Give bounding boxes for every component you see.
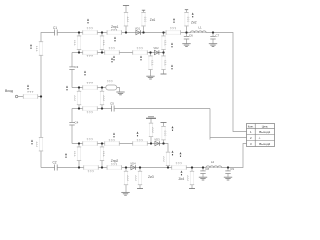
svg-text:C3: C3 xyxy=(75,65,79,69)
current arrow (Zи1) xyxy=(173,18,175,23)
svg-text:???: ??? xyxy=(144,16,148,22)
wire xyxy=(163,123,165,144)
junction xyxy=(101,51,103,53)
svg-text:Вход: Вход xyxy=(5,89,13,93)
wire C7 stem xyxy=(212,33,214,44)
resistor R28 (???) xyxy=(172,161,187,169)
current arrow (R23) xyxy=(172,126,174,131)
capacitor C6 xyxy=(184,36,189,39)
svg-text:???: ??? xyxy=(102,95,106,101)
current arrow (R1) xyxy=(30,44,32,49)
wire input branch xyxy=(18,96,41,98)
svg-text:???: ??? xyxy=(73,40,77,46)
svg-text:???: ??? xyxy=(87,26,94,30)
junction xyxy=(227,166,229,168)
svg-text:???: ??? xyxy=(126,175,130,181)
current arrow (R9) xyxy=(171,43,173,48)
ground (R13) xyxy=(146,76,154,79)
svg-text:???: ??? xyxy=(164,40,168,46)
svg-text:L1: L1 xyxy=(198,25,202,29)
capacitor C2 xyxy=(55,165,58,171)
current arrow (R12) xyxy=(140,56,142,61)
capacitor C5 xyxy=(112,106,115,112)
svg-text:C4: C4 xyxy=(75,120,79,124)
junction xyxy=(139,166,141,168)
svg-text:???: ??? xyxy=(27,90,34,94)
svg-text:???: ??? xyxy=(164,60,168,66)
inductor L3 (stadium) xyxy=(106,85,117,90)
svg-text:???: ??? xyxy=(102,40,106,46)
current arrow (Zи2) xyxy=(192,13,194,18)
wire xyxy=(163,33,165,53)
resistor Zпр1 (???) xyxy=(107,28,122,35)
wire xyxy=(71,109,73,144)
wire riser T1 xyxy=(125,6,127,33)
resistor R14 (???) xyxy=(161,56,167,69)
diode VD3 xyxy=(155,141,160,145)
svg-text:VD4: VD4 xyxy=(130,161,136,165)
wire C9 stem xyxy=(227,168,229,178)
svg-text:???: ??? xyxy=(102,151,106,157)
junction xyxy=(125,166,127,168)
terminal T7 xyxy=(189,188,195,190)
current arrow (R26) xyxy=(172,151,174,156)
junction xyxy=(162,51,164,53)
junction xyxy=(78,51,80,53)
wire xyxy=(101,33,103,53)
wire rail2 xyxy=(72,52,164,54)
junction xyxy=(162,142,164,144)
resistor R3 (???) xyxy=(23,90,38,99)
resistor R22 (???) xyxy=(149,123,155,136)
svg-text:???: ??? xyxy=(87,137,94,141)
wire C8 stem xyxy=(202,168,204,178)
capacitor C8 xyxy=(200,171,205,174)
svg-text:Цепь: Цепь xyxy=(262,125,269,129)
svg-text:???: ??? xyxy=(111,28,118,32)
resistor Zпр2 (???) xyxy=(107,163,122,170)
svg-text:???: ??? xyxy=(87,54,94,58)
current arrow (R24) xyxy=(65,153,67,158)
svg-text:???: ??? xyxy=(35,46,39,52)
resistor R13 (???) xyxy=(148,56,154,69)
svg-text:???: ??? xyxy=(137,139,144,143)
junction xyxy=(78,31,80,33)
current arrow (rail3) xyxy=(66,86,68,91)
svg-text:???: ??? xyxy=(107,79,113,83)
diode VD2 xyxy=(154,50,159,54)
resistor R6 (???) xyxy=(124,12,130,26)
resistor R1 (???) xyxy=(35,42,43,56)
capacitor C9 xyxy=(225,171,230,174)
ground (C8) xyxy=(199,177,207,180)
svg-text:L2: L2 xyxy=(211,160,215,164)
resistor R9 (???) xyxy=(161,36,167,50)
svg-text:???: ??? xyxy=(87,81,94,85)
wire xyxy=(139,168,141,189)
terminal T5 xyxy=(161,122,167,124)
resistor R25 (???) xyxy=(100,147,106,161)
current arrow (R4) xyxy=(87,19,89,24)
junction xyxy=(101,166,103,168)
junction xyxy=(150,142,152,144)
terminal T2 xyxy=(142,9,145,11)
resistor R15 (???) xyxy=(83,81,98,90)
current arrow (Zпр1) xyxy=(114,37,116,42)
terminal T6 xyxy=(137,188,143,190)
svg-text:???: ??? xyxy=(35,141,39,147)
svg-text:???: ??? xyxy=(186,175,190,181)
resistor R18 (???) xyxy=(83,106,98,114)
resistor R20 (???) xyxy=(105,139,120,146)
svg-text:???: ??? xyxy=(170,27,177,31)
resistor R11 (???) xyxy=(105,47,120,55)
svg-text:VD1: VD1 xyxy=(135,26,141,30)
svg-text:VD3: VD3 xyxy=(154,138,160,142)
resistor Zи4 (???) xyxy=(186,171,194,185)
diode VD1 xyxy=(136,30,141,34)
wire riser Zи2 xyxy=(186,10,188,33)
junction xyxy=(78,107,80,109)
junction xyxy=(101,31,103,33)
wire rail5 xyxy=(72,144,168,168)
svg-text:???: ??? xyxy=(88,169,95,173)
wire xyxy=(78,144,80,168)
svg-text:???: ??? xyxy=(137,47,144,51)
svg-text:C7: C7 xyxy=(216,33,220,37)
resistor R2 (???) xyxy=(35,137,43,151)
resistor R29 (???) xyxy=(124,171,130,185)
resistor Zи3 (???) xyxy=(134,171,142,185)
resistor R23 (???) xyxy=(161,126,167,140)
junction xyxy=(78,86,80,88)
terminal T3 xyxy=(185,9,188,11)
svg-text:???: ??? xyxy=(109,139,116,143)
svg-text:C2: C2 xyxy=(52,160,56,164)
wire xyxy=(101,88,103,109)
svg-text:C8: C8 xyxy=(205,167,209,171)
resistor Zи1 (???) xyxy=(141,12,147,26)
wire xyxy=(78,33,80,53)
ground (R29) xyxy=(121,192,129,195)
junction xyxy=(185,31,187,33)
wire xyxy=(163,53,165,74)
svg-text:C6: C6 xyxy=(189,33,193,37)
wire to connector pin2 xyxy=(210,109,247,140)
wire rail4 xyxy=(72,108,210,110)
wire xyxy=(71,53,73,88)
wire C6 stem xyxy=(186,33,188,44)
svg-text:Zи2: Zи2 xyxy=(191,21,197,25)
wire rail6 + connector pin3 feed xyxy=(41,144,247,168)
junction xyxy=(125,31,127,33)
wire xyxy=(150,118,152,143)
wire xyxy=(125,168,127,193)
resistor R19 (???) xyxy=(83,137,98,145)
junction xyxy=(212,31,214,33)
current arrow (R21) xyxy=(137,132,139,137)
current arrow (rail2) xyxy=(111,58,113,63)
svg-text:???: ??? xyxy=(162,156,166,162)
terminal T1 xyxy=(123,5,129,7)
resistor R5 (???) xyxy=(166,27,181,35)
wire xyxy=(78,88,80,109)
svg-text:Zи1: Zи1 xyxy=(150,18,156,22)
junction xyxy=(149,51,151,53)
svg-text:???: ??? xyxy=(151,127,155,133)
junction xyxy=(202,166,204,168)
ground (inverted) xyxy=(146,117,156,119)
junction xyxy=(142,31,144,33)
resistor R10 (???) xyxy=(83,50,98,58)
resistor R17 (???) xyxy=(100,91,106,105)
current arrow (R26b) xyxy=(180,152,182,157)
resistor R4 (???) xyxy=(83,26,98,34)
svg-text:Выход2: Выход2 xyxy=(259,142,270,146)
svg-text:???: ??? xyxy=(164,130,168,136)
svg-text:???: ??? xyxy=(73,151,77,157)
svg-text:???: ??? xyxy=(73,95,77,101)
current arrow (R14) xyxy=(171,65,173,70)
junction xyxy=(191,166,193,168)
inductor L2 xyxy=(206,165,222,167)
svg-text:C5: C5 xyxy=(110,101,114,105)
inductor L1 xyxy=(191,30,207,32)
junction xyxy=(101,107,103,109)
current arrow (R11) xyxy=(113,56,115,61)
capacitor C7 xyxy=(210,36,215,39)
svg-text:???: ??? xyxy=(87,110,94,114)
junction xyxy=(101,86,103,88)
svg-text:Выход1: Выход1 xyxy=(259,130,270,134)
junction xyxy=(78,166,80,168)
resistor R7 (???) xyxy=(73,36,81,50)
capacitor C4 xyxy=(69,122,74,125)
junction xyxy=(162,31,164,33)
junction input node xyxy=(40,95,42,97)
resistor R16 (???) xyxy=(73,91,81,105)
ground (C7) xyxy=(209,44,217,47)
current arrow (R15) xyxy=(84,71,86,76)
svg-text:C1: C1 xyxy=(53,26,57,30)
resistor R26 (???) xyxy=(162,152,170,166)
junction xyxy=(101,142,103,144)
input terminal xyxy=(15,95,17,97)
current arrow (R20) xyxy=(113,133,115,138)
capacitor C1 xyxy=(55,30,58,36)
resistor R12 (???) xyxy=(133,47,148,55)
current arrow (Zи4) xyxy=(181,171,183,176)
svg-text:Конт.: Конт. xyxy=(248,125,254,129)
svg-text:Zи3: Zи3 xyxy=(148,175,154,179)
svg-text:VD2: VD2 xyxy=(153,46,159,50)
svg-text:???: ??? xyxy=(109,47,116,51)
svg-text:???: ??? xyxy=(176,161,183,165)
svg-text:???: ??? xyxy=(187,16,191,22)
svg-text:???: ??? xyxy=(134,175,138,181)
wire rail1 + left riser + connector pin1 feed xyxy=(41,33,247,168)
resistor Zи2 (???) xyxy=(184,12,190,26)
resistor R27 (???) xyxy=(84,165,99,173)
svg-text:C9: C9 xyxy=(230,167,234,171)
wire rail3 xyxy=(72,87,117,89)
connector X1 (Конт/Цепь table) xyxy=(247,124,275,147)
terminal T4 xyxy=(161,73,167,75)
junction xyxy=(167,166,169,168)
current arrow (R2) xyxy=(31,140,33,145)
wire xyxy=(150,53,152,77)
wire to ground after L3 xyxy=(117,88,120,92)
resistor R8 (???) xyxy=(100,36,106,50)
ground (after L3) xyxy=(116,92,124,95)
ground (C6) xyxy=(182,44,190,47)
diode VD4 xyxy=(131,165,136,169)
wire riser Zи1 xyxy=(143,10,145,33)
wire xyxy=(101,144,103,168)
junction xyxy=(78,142,80,144)
wire xyxy=(191,168,193,189)
current arrow (R3) xyxy=(27,85,29,90)
ground (C9) xyxy=(224,177,232,180)
capacitor C3 xyxy=(69,67,74,70)
svg-text:Zи4: Zи4 xyxy=(179,177,185,181)
resistor R24 (???) xyxy=(73,147,81,161)
resistor R21 (???) xyxy=(133,139,148,146)
svg-text:???: ??? xyxy=(126,16,130,22)
svg-text:???: ??? xyxy=(111,163,118,167)
svg-text:???: ??? xyxy=(151,60,155,66)
